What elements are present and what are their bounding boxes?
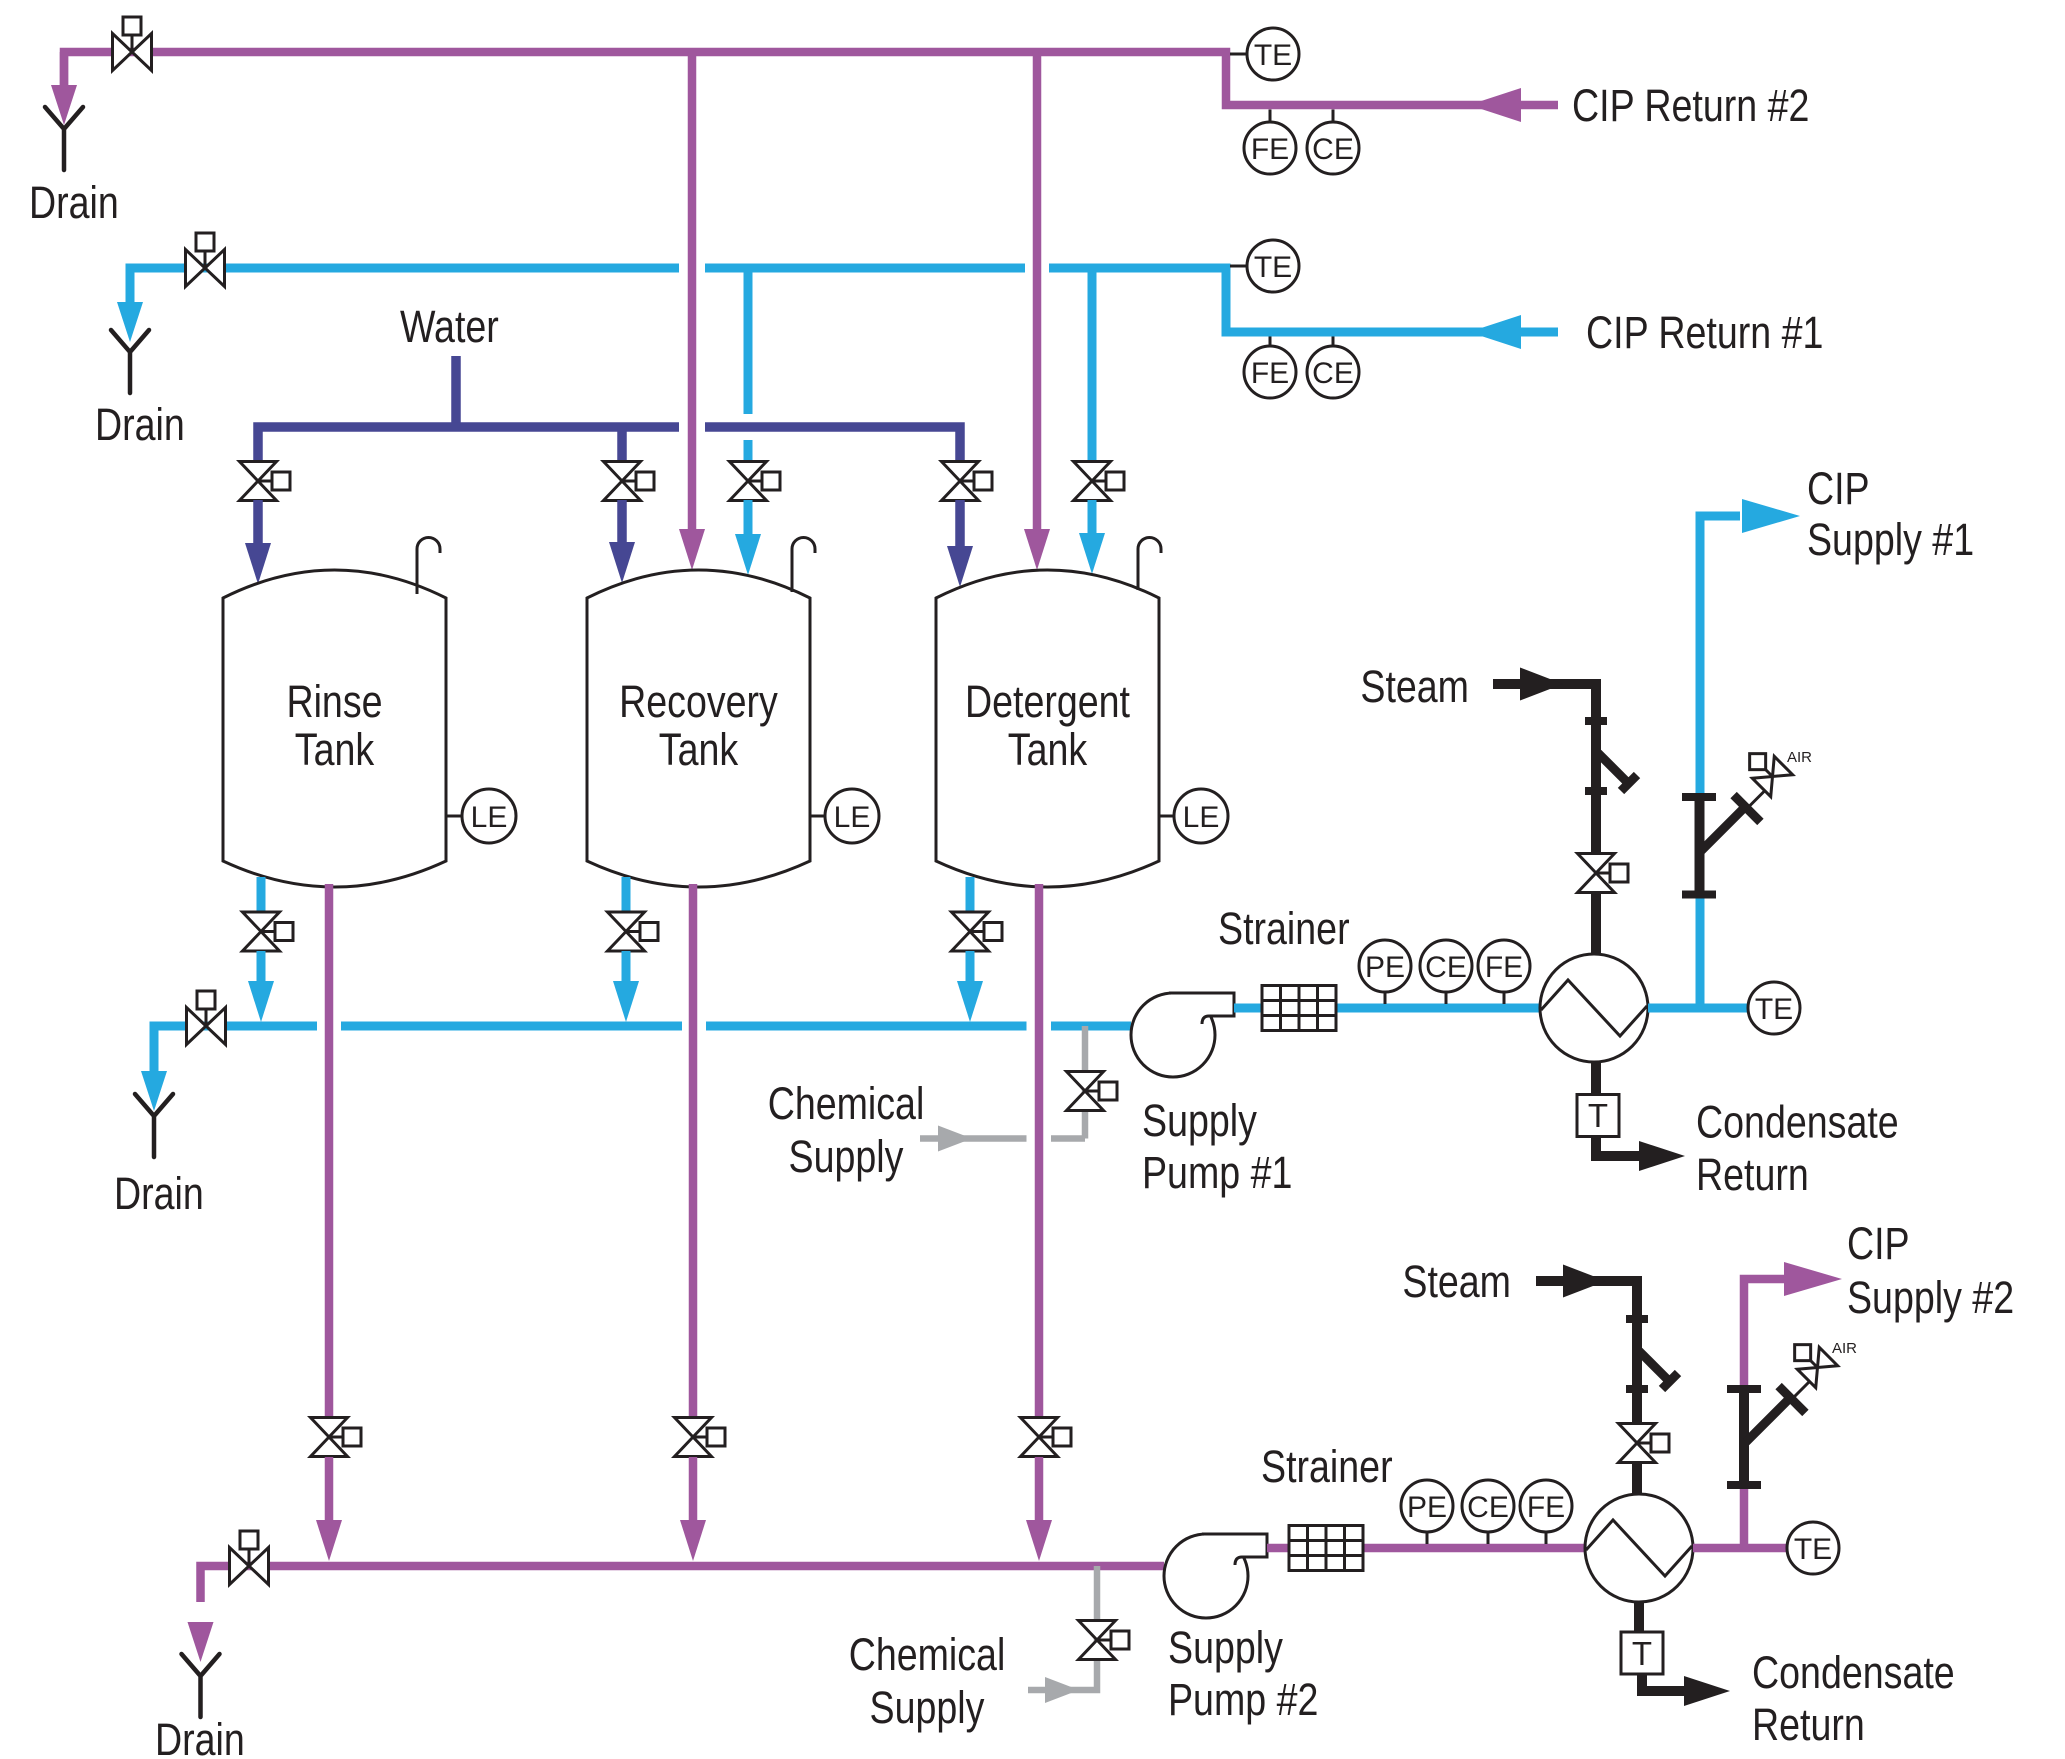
flange tick steam #1 lower	[1585, 787, 1607, 795]
wire water into Detergent	[955, 500, 965, 548]
arrow steam #1	[1520, 668, 1563, 701]
steam trap branch #2	[1639, 1351, 1670, 1382]
arrow chemical supply #1	[938, 1126, 972, 1152]
wire cyan outlet Rinse	[257, 877, 266, 912]
svg-text:Rinse: Rinse	[286, 676, 382, 727]
wire CIP Supply #2 riser	[1744, 1279, 1784, 1548]
air connection assembly #1	[1682, 793, 1716, 801]
wire blue drop Detergent lower	[1088, 500, 1097, 536]
svg-text:FE: FE	[1485, 951, 1523, 984]
svg-text:Steam: Steam	[1360, 661, 1469, 712]
wire cyan outlet Detergent lower	[966, 951, 975, 984]
valve air #1	[1739, 743, 1793, 797]
wire cyan suction manifold	[154, 1026, 1131, 1072]
valve steam #1	[1578, 854, 1629, 893]
svg-text:PE: PE	[1407, 1491, 1447, 1524]
arrow purple drain #1	[51, 85, 77, 125]
arrow cyan Detergent to manifold	[957, 981, 983, 1022]
flange tick steam #2 lower	[1626, 1385, 1648, 1393]
valve purple outlet Detergent	[1021, 1418, 1072, 1457]
svg-text:Tank: Tank	[295, 724, 375, 775]
instrument FE line2	[1545, 1532, 1548, 1544]
valve cyan manifold drain	[187, 991, 226, 1045]
svg-text:Drain: Drain	[29, 177, 119, 228]
svg-text:Drain: Drain	[114, 1168, 204, 1219]
wire chemical supply #1	[920, 1026, 1085, 1139]
valve water to Recovery	[604, 462, 655, 501]
wire blue heat exchanger outlet	[1648, 1004, 1748, 1013]
wire cyan outlet Rinse lower	[257, 951, 266, 984]
valve purple outlet Rinse	[311, 1418, 362, 1457]
arrow blue into Recovery	[735, 534, 761, 575]
wire steam #2	[1536, 1281, 1637, 1423]
wire blue pump discharge	[1234, 1004, 1540, 1013]
pump Supply Pump #1	[1131, 993, 1234, 1077]
svg-text:T: T	[1588, 1097, 1608, 1134]
tank Recovery	[587, 570, 810, 887]
wire condensate #1 outlet	[1596, 1136, 1642, 1156]
svg-text:Recovery: Recovery	[619, 676, 778, 727]
svg-text:Strainer: Strainer	[1261, 1441, 1393, 1492]
valve steam #2	[1619, 1424, 1670, 1463]
arrow steam #2	[1563, 1265, 1606, 1298]
svg-text:Drain: Drain	[95, 399, 185, 450]
svg-text:FE: FE	[1251, 357, 1289, 390]
arrow water into Detergent	[947, 546, 973, 587]
instrument PE line1	[1384, 992, 1387, 1004]
vent hook Recovery	[792, 538, 815, 593]
valve blue header drain	[186, 233, 225, 287]
wire cyan outlet Detergent	[966, 877, 975, 912]
svg-text:CE: CE	[1312, 357, 1354, 390]
wire purple supply to Detergent Tank	[1033, 52, 1042, 532]
svg-text:FE: FE	[1527, 1491, 1565, 1524]
svg-text:FE: FE	[1251, 133, 1289, 166]
wire condensate #2	[1634, 1602, 1644, 1634]
wire purple outlet Rinse	[325, 884, 334, 1417]
heat exchanger #1	[1540, 954, 1648, 1062]
svg-text:CIP: CIP	[1847, 1218, 1910, 1269]
arrow blue drain #2	[117, 302, 143, 342]
wire purple outlet Detergent	[1035, 884, 1044, 1417]
svg-text:Supply: Supply	[870, 1682, 985, 1733]
instrument FE blue return	[1269, 337, 1272, 348]
strainer #2	[1289, 1526, 1363, 1571]
instrument PE line2	[1426, 1532, 1429, 1544]
wire purple outlet Recovery	[689, 884, 698, 1417]
wire purple outlet Detergent lower	[1035, 1457, 1044, 1522]
svg-text:TE: TE	[1254, 39, 1292, 72]
wire condensate #1	[1591, 1062, 1601, 1096]
instrument LE Rinse	[446, 815, 463, 818]
wire purple outlet Rinse lower	[325, 1457, 334, 1522]
arrow cyan Recovery to manifold	[613, 981, 639, 1022]
instrument CE blue return	[1332, 337, 1335, 348]
instrument FE line1	[1503, 992, 1506, 1004]
wire water into Recovery	[617, 500, 627, 545]
svg-text:Tank: Tank	[1008, 724, 1088, 775]
svg-text:Strainer: Strainer	[1218, 903, 1350, 954]
svg-text:AIR: AIR	[1832, 1340, 1857, 1357]
wire purple pump discharge	[1267, 1544, 1586, 1553]
svg-text:Drain: Drain	[155, 1714, 245, 1759]
valve chemical supply #1	[1067, 1072, 1118, 1111]
svg-text:CIP: CIP	[1807, 463, 1870, 514]
heat exchanger #2	[1585, 1494, 1693, 1602]
arrow Condensate Return #1	[1639, 1141, 1685, 1171]
wire water feed stub	[451, 356, 461, 423]
svg-text:Condensate: Condensate	[1752, 1647, 1955, 1698]
valve water to Rinse	[240, 462, 291, 501]
valve purple manifold drain	[230, 1531, 269, 1585]
trap T box #2	[1621, 1632, 1663, 1674]
arrow purple Rinse to manifold	[316, 1520, 342, 1561]
valve chemical supply #2	[1079, 1621, 1130, 1660]
tank Rinse	[223, 570, 446, 887]
arrow CIP Supply #2	[1784, 1262, 1842, 1296]
valve purple header drain	[113, 17, 152, 71]
svg-text:Tank: Tank	[659, 724, 739, 775]
instrument TE purple return	[1230, 53, 1247, 56]
svg-text:TE: TE	[1254, 251, 1292, 284]
wire blue supply drop to Recovery	[744, 268, 753, 462]
instrument TE line2	[1787, 1522, 1839, 1574]
arrow water into Rinse	[245, 543, 271, 584]
svg-text:Steam: Steam	[1402, 1256, 1511, 1307]
valve cyan outlet Rinse	[243, 912, 294, 951]
svg-text:Supply #1: Supply #1	[1807, 514, 1974, 565]
svg-text:TE: TE	[1794, 1533, 1832, 1566]
wire CIP Supply #1 riser	[1700, 516, 1740, 1008]
svg-text:CE: CE	[1425, 951, 1467, 984]
vent hook Rinse	[417, 538, 440, 595]
arrow purple manifold drain	[188, 1622, 214, 1662]
pump Supply Pump #2	[1164, 1534, 1267, 1618]
instrument CE purple return	[1332, 110, 1335, 124]
svg-text:TE: TE	[1755, 993, 1793, 1026]
wire cyan outlet Recovery	[622, 877, 631, 912]
svg-text:Chemical: Chemical	[768, 1078, 925, 1129]
drain symbol #1	[45, 107, 83, 170]
svg-text:Supply: Supply	[1168, 1622, 1283, 1673]
wire blue supply drop to Detergent	[1088, 268, 1097, 462]
svg-text:LE: LE	[471, 801, 508, 834]
instrument FE purple return	[1269, 110, 1272, 124]
svg-text:CE: CE	[1467, 1491, 1509, 1524]
valve cyan outlet Detergent	[952, 912, 1003, 951]
vent hook Detergent	[1138, 538, 1161, 591]
valve blue drop Detergent	[1074, 462, 1125, 501]
valve air #2	[1784, 1334, 1838, 1388]
instrument CE line1	[1445, 992, 1448, 1004]
trap T box #1	[1577, 1095, 1619, 1137]
arrow purple into Detergent Tank	[1024, 529, 1050, 570]
wire purple heat exchanger outlet	[1693, 1544, 1787, 1553]
wire steam #2 to heat exchanger	[1632, 1463, 1642, 1496]
instrument LE Detergent	[1159, 815, 1175, 818]
wire water into Rinse	[253, 500, 263, 545]
wire chemical supply #2	[1028, 1566, 1097, 1690]
wire CIP Return #2 purple header	[64, 52, 1558, 105]
wire water header	[258, 427, 960, 464]
instrument TE line1	[1748, 982, 1800, 1034]
wire blue drop Recovery lower	[744, 500, 753, 536]
svg-text:Supply: Supply	[789, 1131, 904, 1182]
arrow purple into Recovery Tank	[679, 529, 705, 570]
svg-text:CE: CE	[1312, 133, 1354, 166]
svg-text:LE: LE	[834, 801, 871, 834]
arrow purple Recovery to manifold	[680, 1520, 706, 1561]
svg-text:PE: PE	[1365, 951, 1405, 984]
valve blue drop Recovery	[730, 462, 781, 501]
flange tick steam #1 upper	[1585, 717, 1607, 725]
svg-text:Water: Water	[400, 301, 499, 352]
arrow water into Recovery	[609, 542, 635, 583]
wire purple suction manifold	[201, 1566, 1165, 1602]
flange tick steam #2 upper	[1626, 1315, 1648, 1323]
arrow CIP Return #2 flow	[1469, 88, 1521, 122]
instrument TE blue return	[1230, 265, 1247, 268]
valve purple outlet Recovery	[675, 1418, 726, 1457]
instrument LE Recovery	[810, 815, 826, 818]
arrow CIP Return #1 flow	[1469, 315, 1521, 349]
wire water branch to Recovery	[617, 427, 627, 464]
wire steam #1 to heat exchanger	[1591, 893, 1601, 956]
drain symbol #2	[111, 330, 149, 393]
arrow cyan Rinse to manifold	[248, 981, 274, 1022]
steam trap branch #1	[1598, 753, 1629, 784]
wire purple supply to Recovery Tank	[688, 52, 697, 532]
arrow blue into Detergent	[1079, 533, 1105, 574]
valve cyan outlet Recovery	[608, 912, 659, 951]
wire cyan outlet Recovery lower	[622, 951, 631, 984]
wire purple outlet Recovery lower	[689, 1457, 698, 1522]
wire CIP Return #1 blue header	[130, 268, 1558, 332]
strainer #1	[1262, 986, 1336, 1031]
svg-text:Supply #2: Supply #2	[1847, 1272, 2014, 1323]
svg-text:CIP Return #2: CIP Return #2	[1572, 80, 1809, 131]
svg-text:Supply: Supply	[1142, 1095, 1257, 1146]
svg-text:Chemical: Chemical	[849, 1629, 1006, 1680]
arrow chemical supply #2	[1045, 1677, 1079, 1703]
tank Detergent	[936, 570, 1159, 887]
arrow purple Detergent to manifold	[1026, 1520, 1052, 1561]
svg-text:T: T	[1632, 1635, 1652, 1672]
svg-text:Pump #2: Pump #2	[1168, 1674, 1318, 1725]
arrow cyan manifold drain	[141, 1071, 167, 1111]
wire steam #1	[1493, 684, 1596, 853]
wire purple drop to drain #1	[60, 52, 69, 88]
valve water to Detergent	[942, 462, 993, 501]
svg-text:Detergent: Detergent	[965, 676, 1130, 727]
arrow CIP Supply #1	[1742, 499, 1800, 533]
svg-text:CIP Return #1: CIP Return #1	[1586, 307, 1823, 358]
svg-text:Return: Return	[1752, 1699, 1865, 1750]
svg-text:AIR: AIR	[1787, 749, 1812, 766]
arrow Condensate Return #2	[1684, 1676, 1730, 1706]
svg-text:Condensate: Condensate	[1696, 1097, 1899, 1148]
svg-text:LE: LE	[1183, 801, 1220, 834]
svg-text:Return: Return	[1696, 1149, 1809, 1200]
wire condensate #2 outlet	[1642, 1674, 1687, 1691]
drain symbol #3	[135, 1094, 173, 1157]
air connection assembly #2	[1727, 1385, 1761, 1393]
svg-text:Pump #1: Pump #1	[1142, 1147, 1292, 1198]
drain symbol #4	[182, 1654, 220, 1717]
instrument CE line2	[1487, 1532, 1490, 1544]
